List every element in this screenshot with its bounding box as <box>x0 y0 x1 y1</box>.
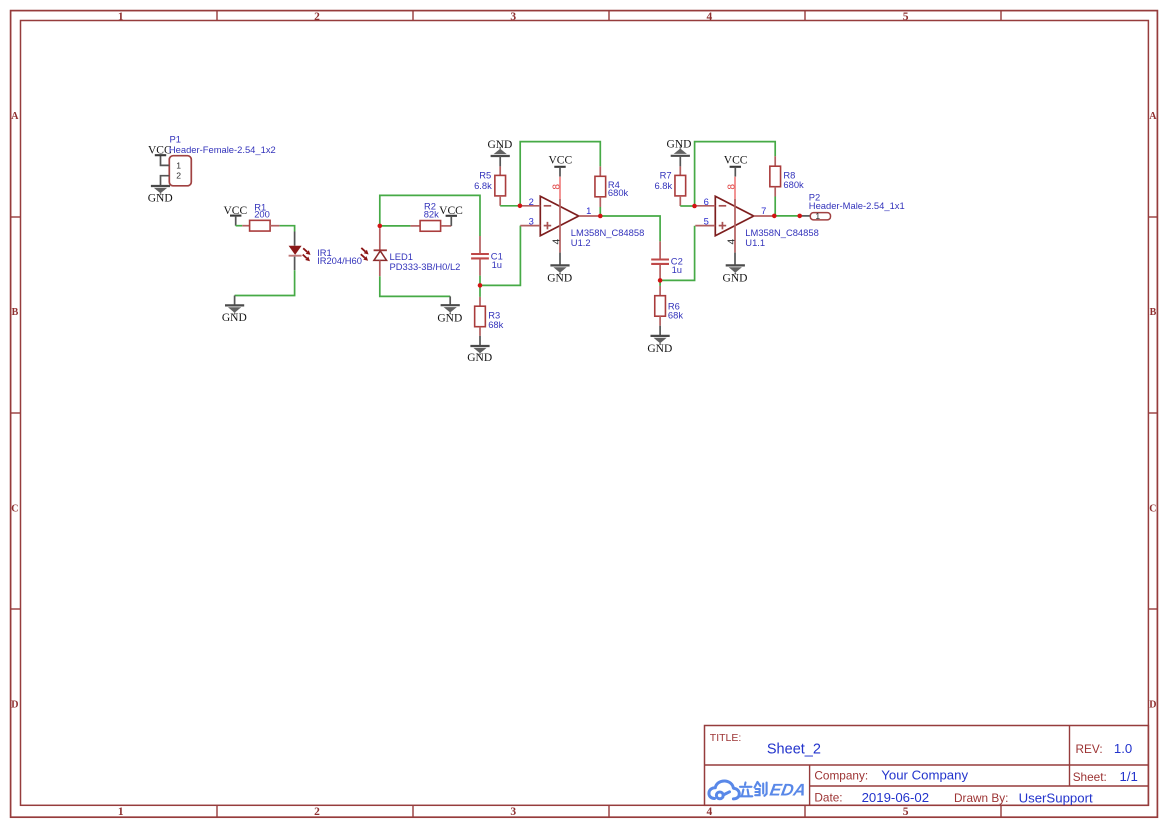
svg-text:B: B <box>12 307 19 318</box>
svg-text:Drawn By:: Drawn By: <box>954 791 1008 805</box>
svg-text:GND: GND <box>723 273 748 285</box>
svg-text:GND: GND <box>647 343 672 355</box>
svg-text:GND: GND <box>222 312 247 324</box>
svg-text:6.8k: 6.8k <box>654 180 672 191</box>
svg-text:U1.2: U1.2 <box>571 237 591 248</box>
svg-text:6.8k: 6.8k <box>474 180 492 191</box>
svg-text:2: 2 <box>529 196 534 207</box>
svg-text:Sheet:: Sheet: <box>1073 770 1107 784</box>
svg-text:D: D <box>11 700 18 711</box>
svg-text:200: 200 <box>254 209 270 220</box>
svg-text:3: 3 <box>529 216 534 227</box>
svg-text:7: 7 <box>761 205 766 216</box>
svg-text:C: C <box>1149 503 1156 514</box>
svg-text:680k: 680k <box>608 187 629 198</box>
svg-text:1: 1 <box>586 205 591 216</box>
svg-text:Sheet_2: Sheet_2 <box>767 741 821 757</box>
svg-text:68k: 68k <box>668 309 683 320</box>
svg-text:PD333-3B/H0/L2: PD333-3B/H0/L2 <box>390 261 461 272</box>
svg-text:2: 2 <box>314 11 320 23</box>
svg-text:D: D <box>1149 700 1156 711</box>
svg-text:8: 8 <box>551 184 562 190</box>
svg-text:2: 2 <box>314 806 320 818</box>
svg-text:8: 8 <box>726 184 737 190</box>
svg-text:1: 1 <box>118 11 124 23</box>
svg-text:Company:: Company: <box>814 769 868 783</box>
svg-text:680k: 680k <box>783 179 804 190</box>
svg-text:1: 1 <box>176 160 181 170</box>
svg-text:C: C <box>11 503 18 514</box>
svg-text:5: 5 <box>903 806 909 818</box>
svg-text:4: 4 <box>551 239 562 245</box>
svg-text:TITLE:: TITLE: <box>710 732 742 744</box>
svg-text:Header-Male-2.54_1x1: Header-Male-2.54_1x1 <box>809 200 905 211</box>
svg-text:Header-Female-2.54_1x2: Header-Female-2.54_1x2 <box>169 144 276 155</box>
svg-text:B: B <box>1150 307 1157 318</box>
svg-text:VCC: VCC <box>724 155 748 167</box>
svg-text:4: 4 <box>726 239 737 245</box>
svg-text:2019-06-02: 2019-06-02 <box>862 790 929 805</box>
svg-text:EDA: EDA <box>768 780 807 800</box>
svg-text:A: A <box>11 111 19 122</box>
svg-text:GND: GND <box>667 138 692 150</box>
svg-text:3: 3 <box>510 11 516 23</box>
svg-text:R5: R5 <box>479 169 491 180</box>
svg-text:2: 2 <box>176 171 181 181</box>
svg-text:Date:: Date: <box>814 791 842 805</box>
svg-text:R7: R7 <box>660 169 672 180</box>
svg-text:1/1: 1/1 <box>1120 769 1138 784</box>
svg-text:6: 6 <box>704 196 709 207</box>
svg-text:GND: GND <box>467 352 492 364</box>
svg-text:5: 5 <box>704 216 709 227</box>
svg-text:5: 5 <box>903 11 909 23</box>
svg-text:Your Company: Your Company <box>881 768 968 783</box>
svg-text:VCC: VCC <box>439 205 463 217</box>
svg-text:A: A <box>1149 111 1157 122</box>
svg-text:1u: 1u <box>492 259 502 270</box>
svg-text:GND: GND <box>547 273 572 285</box>
svg-text:REV:: REV: <box>1076 742 1103 756</box>
svg-text:68k: 68k <box>488 319 503 330</box>
svg-text:3: 3 <box>510 806 516 818</box>
svg-text:GND: GND <box>437 312 462 324</box>
svg-text:82k: 82k <box>424 208 439 219</box>
svg-text:1u: 1u <box>672 264 682 275</box>
svg-text:GND: GND <box>148 192 173 204</box>
svg-text:VCC: VCC <box>223 205 247 217</box>
svg-text:4: 4 <box>707 11 713 23</box>
svg-text:1: 1 <box>815 211 820 221</box>
svg-text:1: 1 <box>118 806 124 818</box>
svg-text:4: 4 <box>707 806 713 818</box>
svg-text:U1.1: U1.1 <box>745 237 765 248</box>
svg-text:IR204/H60: IR204/H60 <box>317 255 362 266</box>
svg-text:1.0: 1.0 <box>1114 741 1132 756</box>
svg-text:VCC: VCC <box>548 155 572 167</box>
svg-text:UserSupport: UserSupport <box>1019 790 1093 805</box>
